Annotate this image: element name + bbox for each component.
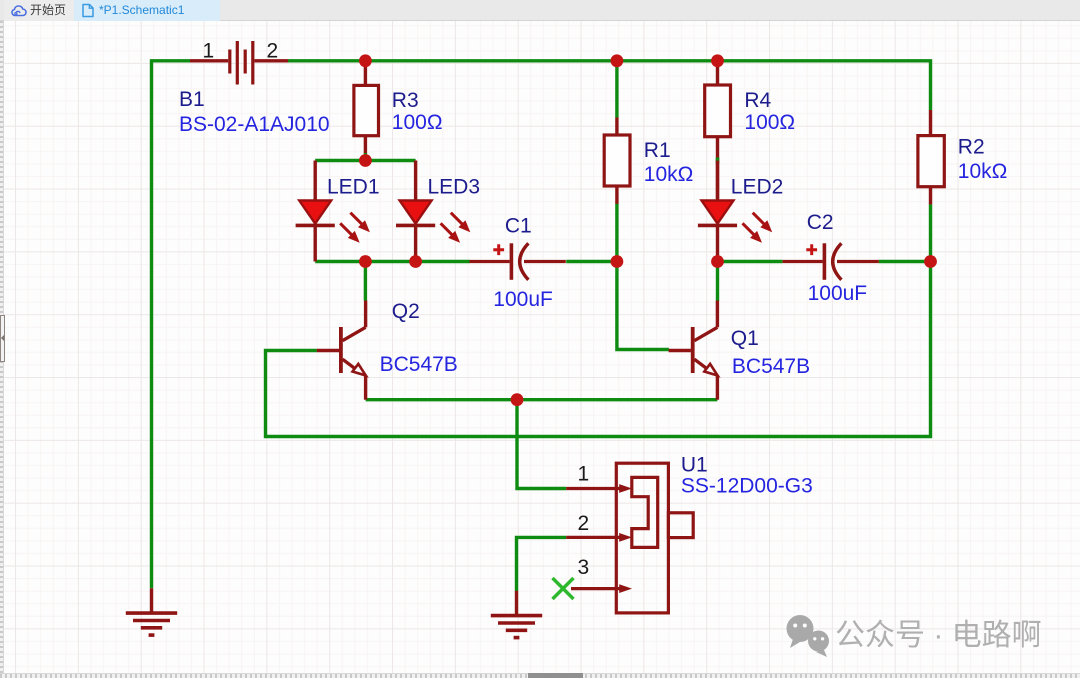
svg-text:10kΩ: 10kΩ bbox=[644, 163, 694, 186]
resistor R3 bbox=[354, 63, 379, 153]
wire: battery negative rail down left side to ground bbox=[152, 61, 191, 589]
left collapsed panel handle bbox=[0, 315, 5, 362]
svg-text:R1: R1 bbox=[644, 139, 671, 162]
wire: R1 top column bbox=[615, 61, 618, 118]
svg-text:U1: U1 bbox=[681, 453, 708, 476]
wire: R1 bottom to node bbox=[615, 204, 618, 262]
wire: LED2 node to C2 bbox=[718, 260, 783, 263]
wire: top power bus from battery pin2 to right edge, down to R2 bbox=[288, 61, 931, 110]
junction node LED2/Q1 bbox=[711, 255, 724, 268]
svg-text:100Ω: 100Ω bbox=[744, 111, 795, 134]
svg-text:SS-12D00-G3: SS-12D00-G3 bbox=[681, 475, 813, 498]
svg-text:3: 3 bbox=[578, 556, 590, 579]
watermark wechat icon bbox=[787, 615, 830, 657]
left scrollbar strip bbox=[0, 21, 4, 678]
junction node R1 top bbox=[611, 54, 624, 67]
wire: emitter node down to switch pin 1 bbox=[517, 400, 566, 489]
no-connect X on switch pin 3 bbox=[553, 578, 574, 599]
svg-text:2: 2 bbox=[578, 512, 590, 535]
svg-text:C2: C2 bbox=[807, 211, 834, 234]
wire: LED1/LED3 top link bbox=[315, 159, 415, 162]
switch U1 bbox=[566, 463, 693, 613]
wire: R1/C1 node down to Q1 base bbox=[617, 262, 669, 350]
junction node LED3 bottom bbox=[409, 255, 422, 268]
junction node Q2 collector bbox=[359, 255, 372, 268]
svg-text:LED1: LED1 bbox=[327, 176, 380, 199]
svg-text:B1: B1 bbox=[179, 88, 205, 111]
wire: Q2 collector up to LED rail bbox=[364, 262, 367, 301]
svg-text:100uF: 100uF bbox=[493, 288, 553, 311]
junction node R4 top bbox=[711, 54, 724, 67]
junction node R3 top bbox=[359, 54, 372, 67]
svg-text:2: 2 bbox=[267, 40, 279, 63]
wire: stub on R4-LED2 leg bbox=[716, 158, 719, 164]
junction node R1/C1 bbox=[611, 255, 624, 268]
bottom scrollbar strip bbox=[0, 673, 1080, 678]
wire: bottom rail LED1 to C1 bbox=[315, 260, 470, 263]
svg-text:R2: R2 bbox=[958, 136, 985, 159]
junction node C2/R2 bbox=[924, 255, 937, 268]
wire: C2 to R2 node bbox=[879, 260, 931, 263]
transistor Q2 bbox=[317, 301, 366, 400]
stub repaint on R4 leg bbox=[716, 158, 719, 164]
wire: switch pin 2 to ground bbox=[517, 537, 567, 591]
LED2 bbox=[698, 161, 772, 262]
wire: emitter rail Q2 to Q1 bbox=[366, 398, 718, 401]
svg-text:1: 1 bbox=[578, 463, 590, 486]
resistor R4 bbox=[705, 65, 731, 199]
resistor R1 bbox=[604, 118, 630, 204]
svg-text:C1: C1 bbox=[505, 215, 532, 238]
svg-text:1: 1 bbox=[203, 40, 215, 63]
wire: Q1 collector up to LED2 node bbox=[716, 262, 719, 302]
junction node LED split bbox=[359, 154, 372, 167]
svg-text:Q2: Q2 bbox=[392, 300, 420, 323]
svg-text:BS-02-A1AJ010: BS-02-A1AJ010 bbox=[179, 113, 330, 136]
battery B1 bbox=[190, 41, 288, 85]
ground under battery rail bbox=[126, 588, 177, 635]
wire: C1 to R1 node bbox=[566, 260, 617, 263]
ground under switch pin 2 bbox=[491, 591, 542, 638]
capacitor C2 bbox=[783, 243, 879, 279]
tab bar bbox=[0, 0, 1080, 21]
wire: R3 bottom to LED split node bbox=[364, 153, 367, 161]
resistor R2 bbox=[918, 110, 944, 204]
LED3 bbox=[396, 161, 470, 262]
svg-text:公众号 · 电路啊: 公众号 · 电路啊 bbox=[835, 619, 1042, 652]
LED1 bbox=[296, 161, 370, 262]
wire: R4 top stub bbox=[716, 61, 719, 68]
svg-text:BC547B: BC547B bbox=[380, 353, 458, 376]
svg-text:Q1: Q1 bbox=[731, 327, 759, 350]
svg-text:LED3: LED3 bbox=[428, 176, 481, 199]
svg-text:R4: R4 bbox=[744, 89, 771, 112]
svg-text:100uF: 100uF bbox=[808, 282, 868, 305]
capacitor C1 bbox=[470, 243, 566, 279]
svg-text:10kΩ: 10kΩ bbox=[958, 160, 1008, 183]
junction node emitter rail bbox=[511, 393, 524, 406]
wire: R2 node down, long cross rail, up to Q2 base bbox=[266, 204, 931, 436]
svg-text:BC547B: BC547B bbox=[732, 355, 810, 378]
svg-text:R3: R3 bbox=[392, 89, 419, 112]
svg-text:100Ω: 100Ω bbox=[392, 111, 443, 134]
svg-text:LED2: LED2 bbox=[731, 176, 784, 199]
transistor Q1 bbox=[669, 301, 718, 400]
